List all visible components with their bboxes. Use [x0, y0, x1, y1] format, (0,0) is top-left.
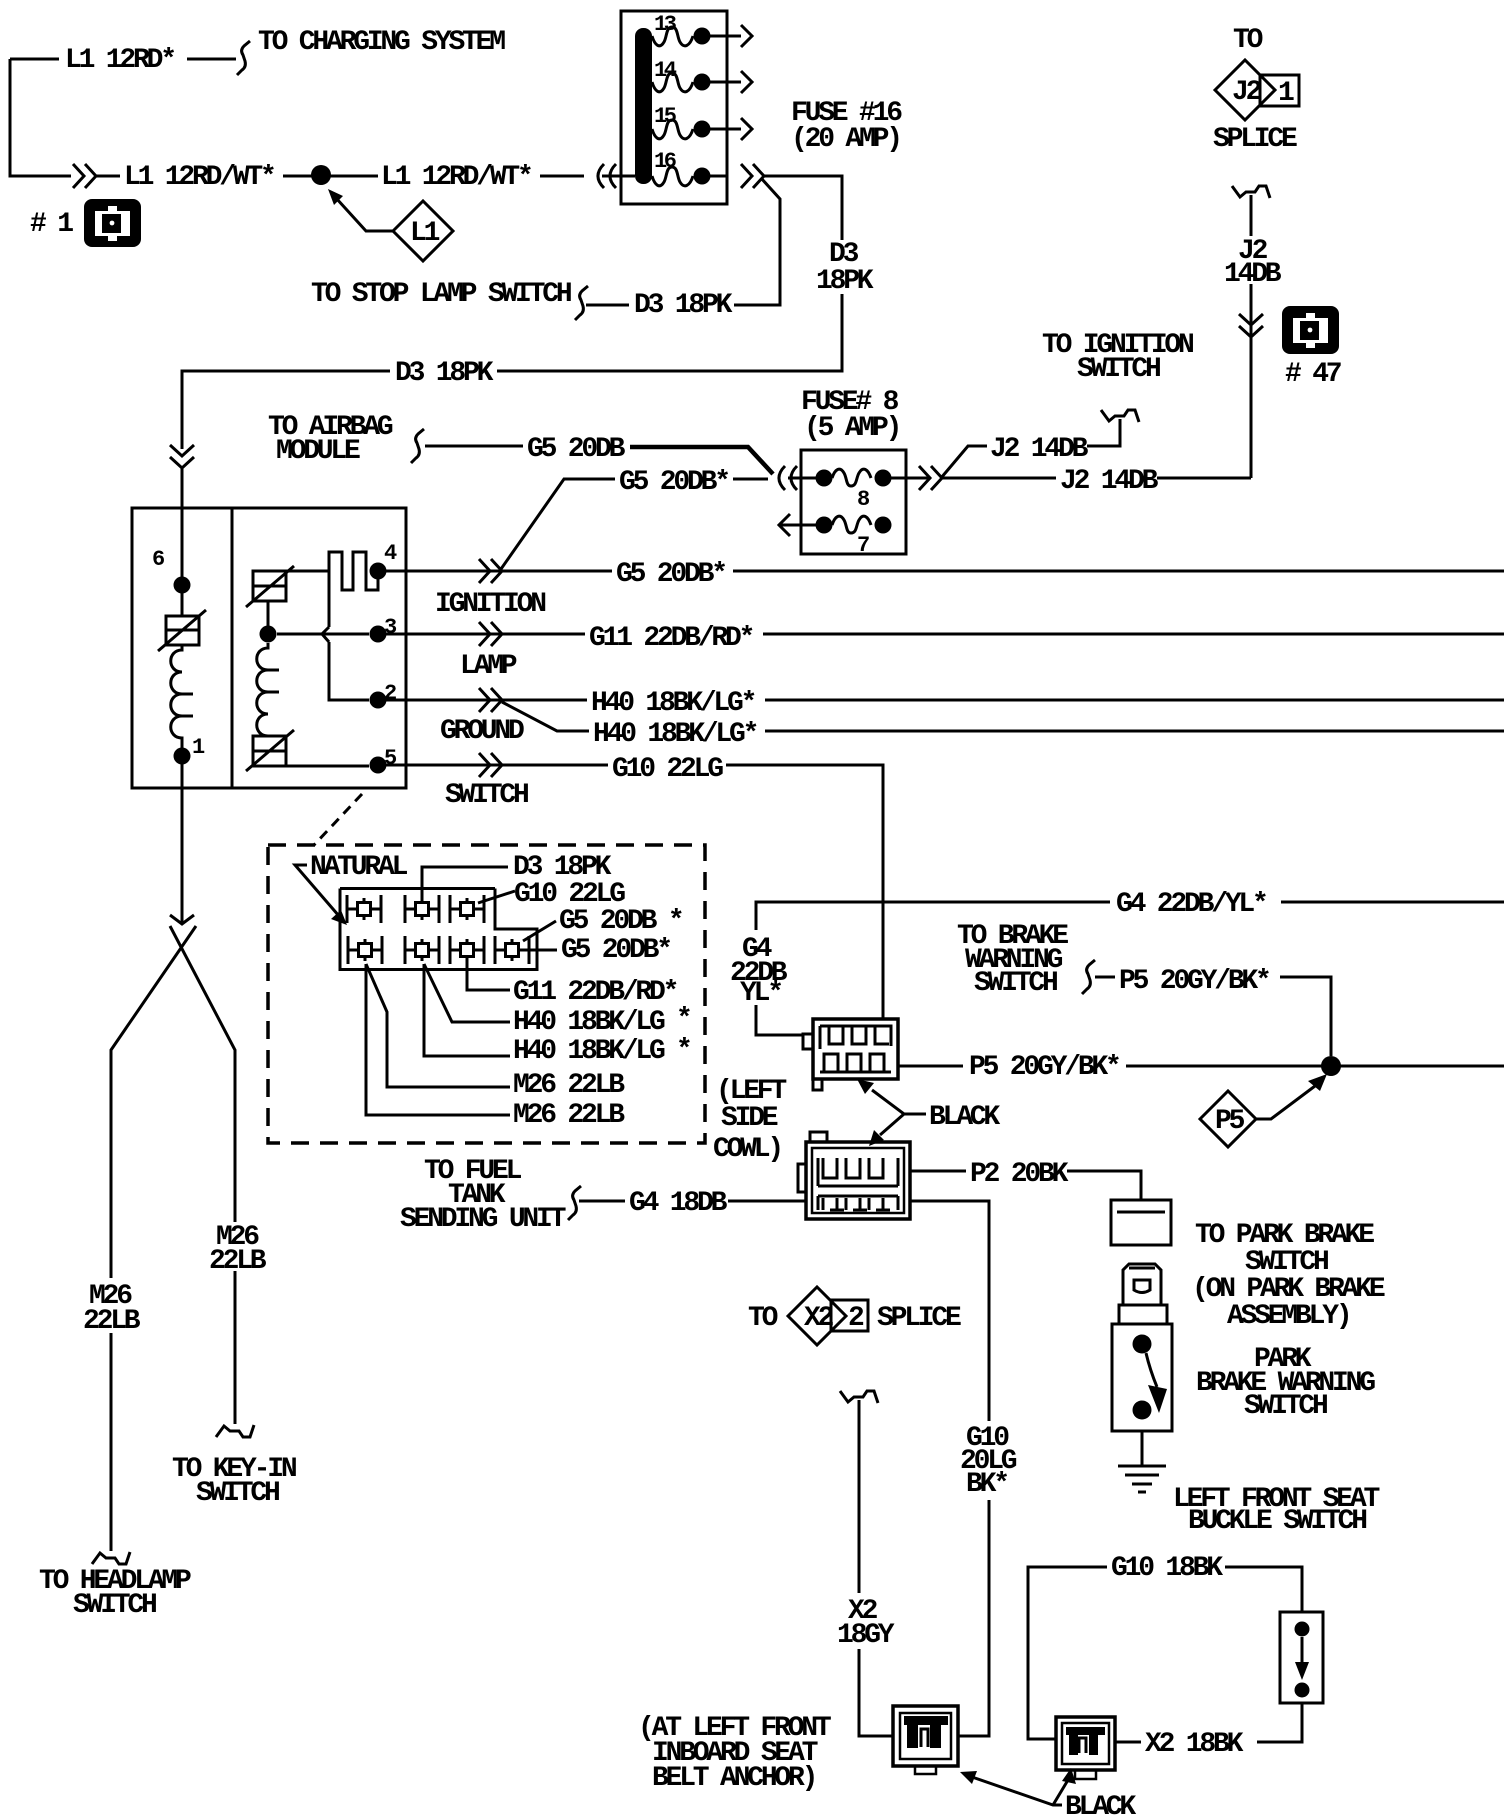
wire J2 14DB vertical — [1157, 195, 1251, 478]
leader D3 18PK — [422, 867, 508, 898]
svg-text:J2 14DB: J2 14DB — [990, 434, 1089, 465]
wire branch to pin 2 with hop — [322, 552, 369, 700]
wire J2 14DB from fuse 8 — [941, 477, 1056, 480]
inline connector to fuse block — [598, 164, 616, 188]
connector C2 comb detail — [820, 1026, 891, 1072]
inline connector fuse 8 input — [779, 466, 797, 490]
svg-text:G4 22DB/YL*: G4 22DB/YL* — [1116, 889, 1266, 920]
svg-text:*: * — [676, 1035, 690, 1066]
svg-text:*: * — [676, 1004, 690, 1035]
cluster partition — [231, 508, 234, 788]
leader M26 first — [366, 964, 510, 1087]
connector symbol pin 2 — [479, 688, 502, 712]
leader arrow NATURAL — [295, 865, 347, 925]
svg-text:ASSEMBLY): ASSEMBLY) — [1227, 1301, 1349, 1332]
seat buckle switch body — [1280, 1612, 1323, 1703]
connector C5 tang detail — [1066, 1727, 1105, 1755]
svg-text:G11 22DB/RD*: G11 22DB/RD* — [589, 623, 753, 654]
svg-text:14: 14 — [654, 58, 677, 83]
terminal row 1 cavity 1 — [347, 895, 381, 923]
svg-text:1: 1 — [1278, 78, 1294, 109]
svg-text:G5 20DB: G5 20DB — [527, 434, 626, 465]
terminal row 1 cavity 3 — [450, 895, 484, 923]
svg-text:H40 18BK/LG: H40 18BK/LG — [513, 1007, 665, 1038]
svg-text:14DB: 14DB — [1224, 259, 1282, 290]
svg-text:TO CHARGING SYSTEM: TO CHARGING SYSTEM — [258, 27, 505, 58]
svg-text:L1 12RD/WT*: L1 12RD/WT* — [124, 162, 274, 193]
svg-text:TO: TO — [748, 1303, 778, 1334]
connector symbol on L1 12RD/WT — [73, 164, 96, 188]
svg-text:(5 AMP): (5 AMP) — [804, 413, 899, 444]
svg-text:P5 20GY/BK*: P5 20GY/BK* — [1119, 966, 1269, 997]
svg-text:SWITCH: SWITCH — [1244, 1391, 1327, 1422]
svg-text:TO: TO — [1233, 25, 1263, 56]
wire L1 12RD/WT left — [95, 175, 313, 178]
connector C3 fuel sender housing — [798, 1132, 910, 1219]
wire pin 5 G10 22LG — [386, 765, 883, 1019]
fuse element pin 15 — [652, 118, 752, 140]
svg-text:SWITCH: SWITCH — [196, 1478, 279, 1509]
fuse element 7 — [779, 514, 892, 536]
connector symbol below cluster — [170, 915, 194, 924]
svg-text:M26 22LB: M26 22LB — [513, 1100, 625, 1131]
connector symbol fuse 8 output — [919, 466, 942, 490]
svg-text:L1 12RD*: L1 12RD* — [65, 45, 174, 76]
pin 2 — [370, 692, 387, 709]
connector symbol on cluster feed wire — [170, 445, 194, 468]
svg-text:H40 18BK/LG*: H40 18BK/LG* — [593, 719, 757, 750]
svg-text:SPLICE: SPLICE — [1213, 124, 1297, 155]
leader arrow P5 to splice — [1256, 1074, 1327, 1119]
wire P2 20BK — [910, 1171, 1141, 1200]
splice symbol X2 diamond — [788, 1287, 846, 1345]
break symbol J2 splice stub — [1232, 186, 1270, 198]
svg-text:BK*: BK* — [966, 1469, 1007, 1500]
pin 6 — [174, 577, 191, 594]
brace brake warning — [1082, 960, 1095, 994]
splice pin box 2 — [831, 1300, 868, 1334]
svg-text:18PK: 18PK — [816, 266, 874, 297]
junction splice L1 — [311, 165, 331, 185]
svg-text:X2: X2 — [804, 1303, 834, 1334]
wire D3 18PK to stop lamp switch — [586, 178, 780, 305]
wire lamp to pin 5 — [286, 765, 369, 768]
connector C2 brake warning housing — [803, 1019, 898, 1090]
connector icon # 1 — [84, 199, 141, 247]
leader M26 second — [366, 964, 510, 1115]
fuse element pin 13 — [652, 25, 752, 47]
svg-text:SENDING UNIT: SENDING UNIT — [400, 1204, 566, 1235]
cluster housing — [132, 508, 406, 788]
svg-text:SPLICE: SPLICE — [877, 1303, 961, 1334]
svg-text:H40 18BK/LG: H40 18BK/LG — [513, 1036, 665, 1067]
wire from D3 to cluster — [181, 467, 184, 508]
wire X2 18GY — [859, 1400, 893, 1736]
svg-text:SWITCH: SWITCH — [1077, 354, 1160, 385]
svg-text:13: 13 — [654, 12, 677, 37]
leader G11 — [467, 961, 510, 990]
svg-text:2: 2 — [848, 1303, 864, 1334]
connector C3 comb detail — [818, 1158, 898, 1210]
wire lamp to breaker element — [286, 570, 329, 573]
connector symbol pin 4 — [479, 559, 502, 583]
wire pin 3 G11 — [386, 633, 1504, 636]
wire into pin 6 — [181, 508, 184, 585]
ground symbol — [1118, 1466, 1166, 1492]
circuit breaker element pin 4 — [329, 552, 378, 590]
connector C5 seat buckle housing — [1056, 1717, 1115, 1779]
fuse 8 housing — [801, 450, 906, 554]
buckle blade arrow — [1295, 1637, 1309, 1680]
wire L1 12RD top-left — [10, 59, 236, 176]
leader G5 20DB star — [523, 921, 556, 941]
wire pin 4 to ignition feed — [386, 570, 1504, 573]
wire G5 20DB* upper — [501, 479, 768, 569]
junction splice P5 — [1321, 1056, 1341, 1076]
svg-text:G5 20DB*: G5 20DB* — [619, 467, 728, 498]
brace to charging system — [237, 41, 250, 75]
svg-text:SIDE: SIDE — [721, 1103, 778, 1134]
dashed leader from cluster to connector detail — [314, 794, 362, 845]
wire D3 18PK from fuse 16 — [182, 176, 842, 449]
svg-text:P5: P5 — [1215, 1106, 1245, 1137]
pin 5 — [370, 757, 387, 774]
wire to ground — [1141, 1431, 1144, 1466]
svg-text:MODULE: MODULE — [276, 436, 360, 467]
wire G10 20LG BK* down — [910, 1201, 989, 1736]
switch contact bottom — [1133, 1401, 1152, 1420]
coil left — [171, 645, 193, 748]
connector symbol pin 5 — [479, 753, 502, 777]
park brake feed box — [1111, 1200, 1171, 1245]
svg-text:L1 12RD/WT*: L1 12RD/WT* — [381, 162, 531, 193]
connector C1 cavity view housing — [340, 889, 537, 970]
svg-text:22LB: 22LB — [83, 1306, 141, 1337]
wire pin1 to box bottom — [181, 764, 184, 788]
svg-text:SWITCH: SWITCH — [73, 1590, 156, 1621]
connector symbol fuse 16 output — [741, 164, 764, 188]
leader H40 second — [424, 964, 510, 1056]
svg-text:YL*: YL* — [740, 978, 781, 1009]
wire L1 12RD/WT right — [330, 175, 584, 178]
terminal row 2 cavity 1 — [348, 936, 382, 964]
indicator lamp top right — [246, 566, 294, 607]
svg-text:SWITCH: SWITCH — [445, 780, 528, 811]
buckle contact bottom — [1295, 1683, 1310, 1698]
svg-text:P5 20GY/BK*: P5 20GY/BK* — [969, 1052, 1119, 1083]
pin 3 — [370, 626, 387, 643]
break symbol ignition switch stub — [1101, 410, 1139, 422]
fuse element pin 16 — [602, 167, 727, 186]
leader arrow from L1 diamond to splice — [328, 189, 393, 231]
wire node to pin 3 — [277, 633, 369, 636]
svg-text:G5 20DB *: G5 20DB * — [559, 906, 682, 937]
pin 4 — [370, 563, 387, 580]
break symbol headlamp stub — [92, 1552, 130, 1564]
wire P5 20GY/BK* upper — [1095, 977, 1331, 1056]
park brake warning switch body — [1112, 1324, 1172, 1431]
leader arrows BLACK connectors — [857, 1079, 926, 1146]
wire J2 14DB to ignition switch — [941, 419, 1120, 478]
wire P5 20GY/BK* lower — [898, 1065, 1504, 1068]
svg-text:G4 18DB: G4 18DB — [629, 1188, 728, 1219]
connector C4 seat belt anchor housing — [893, 1706, 958, 1774]
wire G4 22DB/YL* — [756, 902, 1504, 1035]
svg-text:G10 18BK: G10 18BK — [1111, 1553, 1223, 1584]
break symbol X2 stub — [840, 1391, 878, 1403]
wire G5 20DB airbag — [425, 446, 773, 474]
svg-text:G10 22LG: G10 22LG — [612, 754, 723, 785]
connector symbol pin 3 — [479, 622, 502, 646]
svg-text:SWITCH: SWITCH — [974, 968, 1057, 999]
splice symbol P5 diamond — [1200, 1091, 1256, 1147]
svg-text:NATURAL: NATURAL — [310, 852, 408, 883]
coil right — [257, 643, 279, 736]
dashed detail box left side cowl connector — [268, 845, 705, 1143]
svg-text:G5 20DB*: G5 20DB* — [616, 559, 725, 590]
leader G10 22LG — [478, 891, 515, 903]
svg-text:H40 18BK/LG*: H40 18BK/LG* — [591, 688, 755, 719]
buckle contact top — [1295, 1622, 1310, 1637]
switch contact top — [1133, 1335, 1152, 1354]
svg-text:BLACK: BLACK — [1065, 1792, 1136, 1818]
indicator lamp left — [158, 593, 206, 651]
break symbol key-in stub — [216, 1425, 254, 1437]
bus bar — [635, 28, 652, 184]
switch blade arrow — [1146, 1353, 1167, 1413]
splice pin box 1 — [1260, 75, 1299, 109]
svg-text:BUCKLE SWITCH: BUCKLE SWITCH — [1188, 1506, 1366, 1537]
svg-text:GROUND: GROUND — [440, 716, 524, 747]
indicator lamp bottom right — [246, 730, 294, 771]
svg-text:# 1: # 1 — [30, 209, 73, 240]
svg-text:L1: L1 — [410, 218, 440, 249]
svg-text:BELT ANCHOR): BELT ANCHOR) — [652, 1763, 815, 1794]
brace airbag module — [411, 429, 424, 463]
svg-text:(20 AMP): (20 AMP) — [791, 124, 900, 155]
svg-text:# 47: # 47 — [1285, 359, 1341, 390]
svg-text:LAMP: LAMP — [460, 651, 517, 682]
svg-text:TO STOP LAMP SWITCH: TO STOP LAMP SWITCH — [311, 279, 571, 310]
svg-text:22LB: 22LB — [209, 1246, 267, 1277]
park brake switch plug — [1119, 1264, 1167, 1324]
svg-text:G5 20DB*: G5 20DB* — [561, 935, 670, 966]
svg-text:BLACK: BLACK — [929, 1102, 1000, 1133]
svg-text:J2: J2 — [1232, 77, 1262, 108]
svg-text:D3 18PK: D3 18PK — [634, 290, 733, 321]
leader G5 20DB second — [529, 949, 557, 952]
svg-text:IGNITION: IGNITION — [435, 589, 545, 620]
wire lamp bottom to node — [267, 601, 270, 626]
svg-text:D3 18PK: D3 18PK — [395, 358, 494, 389]
svg-text:M26 22LB: M26 22LB — [513, 1070, 625, 1101]
leader H40 first — [424, 964, 510, 1022]
pin 1 — [174, 748, 191, 765]
svg-text:18GY: 18GY — [837, 1620, 895, 1651]
brace stop lamp — [575, 286, 588, 320]
fuse element 8 — [788, 469, 928, 486]
terminal row 2 cavity 4 — [495, 936, 529, 964]
fuse element pin 14 — [652, 71, 752, 93]
wire G10 18BK loop — [1028, 1567, 1302, 1742]
svg-text:COWL): COWL) — [713, 1134, 781, 1165]
leader arrows BLACK bottom connectors — [960, 1768, 1076, 1805]
terminal row 2 cavity 2 — [405, 936, 439, 964]
svg-text:X2 18BK: X2 18BK — [1145, 1729, 1244, 1760]
terminal row 2 cavity 3 — [450, 936, 484, 964]
svg-text:J2 14DB: J2 14DB — [1060, 466, 1159, 497]
svg-text:G11 22DB/RD*: G11 22DB/RD* — [513, 977, 677, 1008]
svg-text:15: 15 — [654, 104, 677, 129]
junction node lamp coil — [260, 626, 277, 643]
connector symbol on J2 wire — [1239, 314, 1263, 337]
brace fuel tank — [568, 1186, 581, 1220]
connector C4 tang detail — [904, 1716, 948, 1748]
terminal row 1 cavity 2 — [405, 895, 439, 923]
connector icon # 47 — [1282, 306, 1339, 354]
wire cluster to M26 fork — [111, 788, 235, 1551]
wire pin 2 H40 — [386, 699, 1504, 702]
splice symbol L1 diamond — [393, 201, 453, 261]
svg-text:P2 20BK: P2 20BK — [970, 1159, 1069, 1190]
wire G4 18DB — [579, 1200, 806, 1203]
fuse block housing FUSE #16 — [621, 11, 727, 204]
svg-text:16: 16 — [654, 149, 676, 174]
wire H40 branch — [502, 702, 1504, 731]
